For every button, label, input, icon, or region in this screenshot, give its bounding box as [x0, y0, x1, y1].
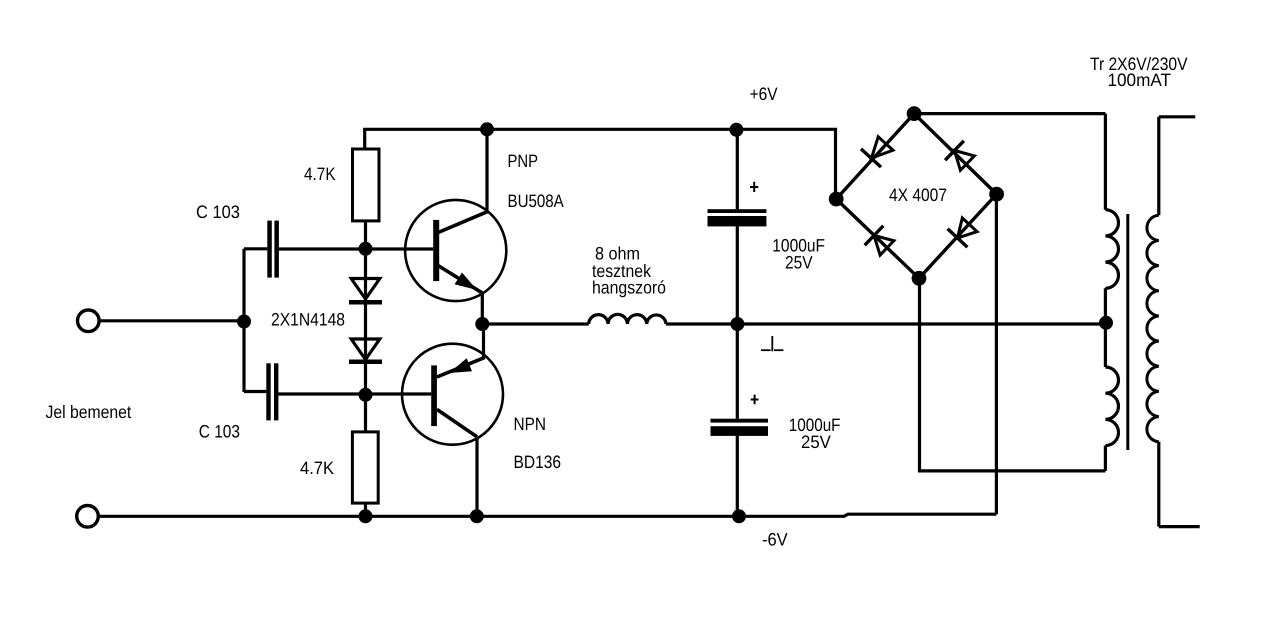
svg-text:4X 4007: 4X 4007	[889, 185, 947, 205]
svg-text:4.7K: 4.7K	[304, 164, 336, 184]
svg-text:-6V: -6V	[762, 529, 788, 549]
svg-text:25V: 25V	[801, 432, 831, 452]
svg-text:C 103: C 103	[196, 202, 240, 222]
svg-text:+6V: +6V	[750, 84, 778, 104]
svg-text:PNP: PNP	[508, 151, 539, 171]
svg-text:C 103: C 103	[199, 422, 240, 442]
svg-text:100mAT: 100mAT	[1108, 70, 1172, 90]
svg-text:4.7K: 4.7K	[300, 458, 334, 478]
svg-text:hangszoró: hangszoró	[592, 278, 666, 298]
svg-text:25V: 25V	[785, 253, 813, 273]
svg-text:2X1N4148: 2X1N4148	[271, 310, 345, 330]
svg-text:BD136: BD136	[514, 452, 562, 472]
svg-text:NPN: NPN	[514, 414, 547, 434]
svg-text:BU508A: BU508A	[508, 191, 564, 211]
svg-text:Jel bemenet: Jel bemenet	[46, 402, 132, 422]
